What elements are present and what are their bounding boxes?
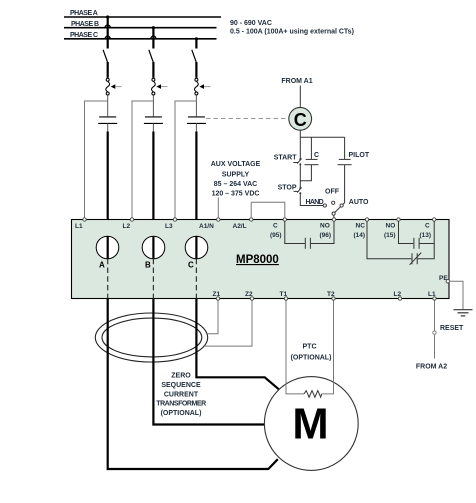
terminal C 13 xyxy=(420,218,436,239)
wire phase A drop xyxy=(105,17,110,49)
wire phase C to contact xyxy=(195,95,197,116)
svg-text:Z1: Z1 xyxy=(213,291,221,298)
terminal L1 bottom xyxy=(428,291,436,300)
svg-text:PHASE A: PHASE A xyxy=(70,10,98,17)
svg-text:AUX VOLTAGE: AUX VOLTAGE xyxy=(211,161,261,168)
wire L1 bottom reset xyxy=(434,300,436,330)
wire phase B into relay xyxy=(152,123,154,131)
wire T2 to PTC xyxy=(322,300,334,394)
svg-text:PHASE C: PHASE C xyxy=(70,32,98,39)
aux contact C branch xyxy=(310,137,312,159)
terminal T1 bottom xyxy=(280,291,288,300)
wire phase C through window xyxy=(195,236,197,258)
wire phase C drop xyxy=(195,39,197,49)
svg-text:AUTO: AUTO xyxy=(349,199,369,206)
selector OFF contact xyxy=(332,201,335,204)
terminal T2 bottom xyxy=(327,291,335,300)
PTC thermistor xyxy=(304,391,322,398)
wire phase C below relay to motor xyxy=(196,299,278,390)
wire phase A to contact xyxy=(107,95,109,116)
svg-text:MP8000: MP8000 xyxy=(236,254,279,266)
svg-text:FROM A1: FROM A1 xyxy=(281,78,312,85)
svg-text:SUPPLY: SUPPLY xyxy=(222,172,250,179)
svg-text:T1: T1 xyxy=(280,291,288,298)
wire Z1 to CT xyxy=(207,300,218,333)
terminal A2/L xyxy=(233,218,253,230)
svg-text:RESET: RESET xyxy=(440,325,464,332)
svg-text:SEQUENCE: SEQUENCE xyxy=(161,382,201,389)
ground symbol xyxy=(454,310,473,316)
breaker element phase A xyxy=(106,78,110,95)
wire phase B to contact xyxy=(152,95,154,116)
wire phase C into relay xyxy=(195,123,197,131)
svg-text:HAND: HAND xyxy=(306,199,324,206)
terminal L2 bottom xyxy=(394,291,402,300)
svg-text:L3: L3 xyxy=(165,223,173,230)
terminal NC 14 xyxy=(354,218,369,239)
svg-text:C: C xyxy=(188,261,194,270)
pilot branch xyxy=(344,137,346,159)
disconnect switch phase C xyxy=(192,50,197,78)
svg-text:L2: L2 xyxy=(123,223,131,230)
relay MP8000 body xyxy=(72,220,450,299)
junction phase B drop xyxy=(152,26,155,29)
wire T1 to PTC xyxy=(286,300,304,394)
wire aux to A1/N xyxy=(217,198,219,219)
wire Z2 to CT xyxy=(204,300,252,346)
svg-text:A2/L: A2/L xyxy=(233,223,247,230)
terminal PE xyxy=(439,275,449,283)
CT window C xyxy=(185,236,208,259)
terminal NO 96 xyxy=(320,218,336,239)
svg-text:(OPTIONAL): (OPTIONAL) xyxy=(291,355,332,362)
terminal A1/N xyxy=(199,218,220,230)
svg-text:PHASE B: PHASE B xyxy=(71,21,99,28)
internal contact C95-NO96 xyxy=(285,221,334,249)
note zero sequence text xyxy=(156,373,206,418)
svg-text:120 – 375 VDC: 120 – 375 VDC xyxy=(212,191,260,198)
svg-text:PTC: PTC xyxy=(303,344,317,351)
terminal C 95 xyxy=(270,218,286,239)
svg-text:PILOT: PILOT xyxy=(349,152,370,159)
svg-text:(14): (14) xyxy=(354,232,366,239)
wire main branch upper xyxy=(299,137,301,159)
svg-text:TRANSFORMER: TRANSFORMER xyxy=(156,401,206,408)
wire phase A below relay to motor xyxy=(108,299,278,470)
wire main branch mid xyxy=(299,164,301,188)
mechanical link dashed to coil xyxy=(206,118,289,120)
svg-text:85 – 264 VAC: 85 – 264 VAC xyxy=(214,181,257,188)
svg-text:A1/N: A1/N xyxy=(199,223,214,230)
svg-text:90 - 690 VAC: 90 - 690 VAC xyxy=(230,20,272,27)
svg-text:(95): (95) xyxy=(270,232,282,239)
breaker arrow phase C xyxy=(199,84,204,89)
svg-text:M: M xyxy=(292,400,328,448)
wire tap to L1 xyxy=(85,101,108,218)
selector wiper xyxy=(335,207,341,213)
terminal L1 top xyxy=(75,218,86,230)
svg-text:NO: NO xyxy=(386,223,396,230)
contactor main contact phase C xyxy=(187,117,206,124)
wire phase B drop xyxy=(151,28,156,49)
svg-text:FROM A2: FROM A2 xyxy=(416,364,447,371)
svg-text:C: C xyxy=(294,110,307,130)
terminal NO 15 xyxy=(384,218,400,239)
wire phase B rail xyxy=(64,27,217,29)
wire phase B below relay to motor xyxy=(153,299,264,425)
motor M1 xyxy=(264,377,358,471)
svg-text:PE: PE xyxy=(439,275,448,282)
reset switch xyxy=(433,331,436,334)
breaker element phase C xyxy=(195,78,199,95)
wire PE to ground xyxy=(450,281,464,309)
note aux voltage supply xyxy=(211,161,261,198)
svg-text:(96): (96) xyxy=(320,232,332,239)
svg-text:A: A xyxy=(99,261,105,270)
svg-text:ZERO: ZERO xyxy=(171,373,191,380)
svg-text:C: C xyxy=(273,223,278,230)
svg-text:NC: NC xyxy=(356,223,366,230)
svg-text:C: C xyxy=(425,223,430,230)
wire control rail xyxy=(300,136,344,138)
disconnect switch phase B xyxy=(149,50,154,78)
contactor main contact phase B xyxy=(144,117,163,124)
wire tap to L2 xyxy=(132,101,153,218)
wire aux branch to C95 xyxy=(251,202,285,218)
junction phase A drop xyxy=(106,15,109,18)
svg-text:START: START xyxy=(274,155,298,162)
wire phase A rail xyxy=(64,16,221,18)
svg-text:L1: L1 xyxy=(75,223,83,230)
pushbutton START xyxy=(293,158,301,163)
svg-text:(13): (13) xyxy=(420,232,432,239)
svg-text:T2: T2 xyxy=(327,291,335,298)
selector common xyxy=(332,212,335,215)
CT window A xyxy=(96,236,119,259)
svg-text:C: C xyxy=(314,152,319,159)
selector AUTO contact xyxy=(340,204,343,207)
terminal Z1 bottom xyxy=(213,291,221,300)
junction phase C drop xyxy=(195,37,198,40)
svg-text:STOP: STOP xyxy=(278,185,297,192)
selector HAND contact xyxy=(323,204,326,207)
pushbutton STOP xyxy=(294,187,302,192)
CT window B xyxy=(142,236,165,259)
svg-text:0.5 - 100A (100A+ using extern: 0.5 - 100A (100A+ using external CTs) xyxy=(230,29,354,36)
terminal L2 top xyxy=(123,218,134,230)
wire phase C rail xyxy=(64,38,217,40)
wire phase A through window xyxy=(107,236,109,258)
wire coil to rail xyxy=(299,130,301,137)
breaker arrow phase A xyxy=(111,84,116,89)
svg-text:B: B xyxy=(145,261,151,270)
terminal Z2 bottom xyxy=(245,291,254,300)
wire from A1 to coil xyxy=(299,86,301,108)
svg-text:L1: L1 xyxy=(428,291,436,298)
wire common to NO96 xyxy=(333,215,335,218)
wire aux to A2/L xyxy=(250,202,252,218)
svg-text:(OPTIONAL): (OPTIONAL) xyxy=(161,410,202,417)
wire phase B through window xyxy=(152,236,154,258)
breaker arrow phase B xyxy=(156,84,161,89)
svg-text:NO: NO xyxy=(320,223,330,230)
contactor main contact phase A xyxy=(98,117,117,124)
zero sequence CT ellipse inner xyxy=(102,318,202,357)
svg-text:(15): (15) xyxy=(384,232,396,239)
wire phase A into relay xyxy=(107,123,109,131)
contactor coil C xyxy=(289,107,312,130)
internal contact NO15-C13 xyxy=(399,221,435,249)
svg-text:OFF: OFF xyxy=(325,189,340,196)
zero sequence CT ellipse outer xyxy=(95,313,207,362)
svg-text:L2: L2 xyxy=(394,291,402,298)
svg-text:CURRENT: CURRENT xyxy=(164,391,199,398)
breaker element phase B xyxy=(152,78,156,95)
terminal L3 top xyxy=(165,218,177,230)
svg-text:Z2: Z2 xyxy=(245,291,253,298)
disconnect switch phase A xyxy=(103,50,108,78)
internal contact NC14-C13 xyxy=(367,221,434,265)
wire main branch lower to HAND xyxy=(300,193,323,205)
wire tap to L3 xyxy=(175,101,196,218)
